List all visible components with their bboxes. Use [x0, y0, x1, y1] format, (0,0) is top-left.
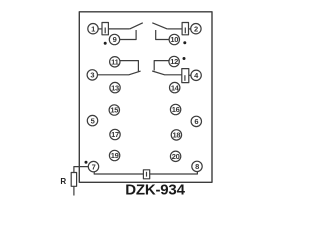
svg-text:5: 5 — [91, 116, 95, 125]
terminal 11 — [110, 57, 120, 67]
svg-text:18: 18 — [173, 131, 181, 140]
resistor R lower lead — [73, 186, 75, 195]
svg-text:10: 10 — [170, 35, 178, 44]
terminal 20 — [170, 151, 180, 161]
svg-text:12: 12 — [170, 57, 178, 66]
wire terminal7 to resistor R — [74, 167, 89, 173]
svg-text:20: 20 — [172, 152, 180, 161]
coil K4 (bottom) — [143, 170, 149, 179]
terminal 16 — [170, 104, 180, 114]
coil K3 — [182, 69, 189, 83]
terminal 13 — [110, 82, 120, 92]
contact blade (3-11, closed) — [97, 71, 140, 75]
svg-text:15: 15 — [110, 106, 118, 115]
wire coil K3 to terminal 4 — [189, 74, 191, 76]
terminal 18 — [171, 130, 181, 140]
coil K2 tick — [184, 28, 186, 34]
svg-text:17: 17 — [111, 130, 119, 139]
coil K2 — [182, 23, 188, 35]
wire terminal12 to contact — [154, 61, 169, 71]
contact blade (1-9, open) — [130, 23, 143, 29]
svg-text:11: 11 — [111, 58, 118, 67]
terminal 17 — [110, 129, 120, 139]
relay case outline — [79, 12, 212, 183]
wire terminal10 fixed contact — [156, 30, 170, 40]
terminal 1 — [88, 24, 98, 34]
wire terminal1 to coil K1 — [98, 28, 102, 30]
wire terminal11 to contact — [120, 61, 138, 72]
svg-text:6: 6 — [194, 117, 198, 126]
svg-text:DZK-934: DZK-934 — [125, 182, 185, 199]
coil K4 tick — [146, 172, 148, 177]
terminal 4 — [191, 70, 201, 80]
contact blade (4-12, closed) — [152, 71, 182, 75]
svg-text:7: 7 — [92, 162, 96, 171]
terminal 8 — [192, 161, 202, 171]
polarity dot near terminal 9 — [104, 42, 107, 45]
svg-text:R: R — [60, 177, 66, 186]
terminal 12 — [169, 56, 179, 66]
terminal 9 — [109, 34, 119, 44]
svg-text:16: 16 — [172, 105, 180, 114]
wire coil K1 to contact blade — [108, 28, 129, 30]
terminal 15 — [109, 105, 119, 115]
svg-text:3: 3 — [90, 71, 94, 80]
svg-text:8: 8 — [195, 162, 199, 171]
polarity dot near terminal 10 — [183, 41, 186, 44]
terminal 10 — [169, 34, 179, 44]
resistor R — [71, 173, 76, 187]
contact blade (2-10, open) — [152, 23, 167, 29]
terminal 7 — [88, 161, 98, 171]
coil K3 tick — [184, 75, 186, 81]
wire blade to coil K2 — [167, 28, 182, 30]
wire coil K2 to terminal 2 — [189, 28, 191, 30]
coil K1 tick — [104, 28, 106, 34]
svg-text:2: 2 — [194, 24, 198, 33]
svg-text:14: 14 — [171, 83, 180, 92]
terminal 3 — [87, 70, 97, 80]
coil K1 — [102, 23, 108, 35]
svg-text:1: 1 — [91, 24, 95, 33]
polarity dot near terminal 12 — [183, 57, 186, 60]
wire terminal9 fixed contact — [120, 30, 137, 40]
svg-text:9: 9 — [113, 35, 117, 44]
polarity dot near terminal 7 — [85, 161, 88, 164]
terminal 19 — [109, 150, 119, 160]
terminal 5 — [87, 115, 97, 125]
svg-text:13: 13 — [111, 83, 119, 92]
wire bus coil K4 to terminal 8 — [150, 172, 198, 175]
svg-text:19: 19 — [111, 151, 119, 160]
terminal 14 — [170, 82, 180, 92]
terminal 2 — [191, 24, 201, 34]
terminal 6 — [191, 116, 201, 126]
wire terminal7 to bottom bus — [94, 171, 143, 174]
